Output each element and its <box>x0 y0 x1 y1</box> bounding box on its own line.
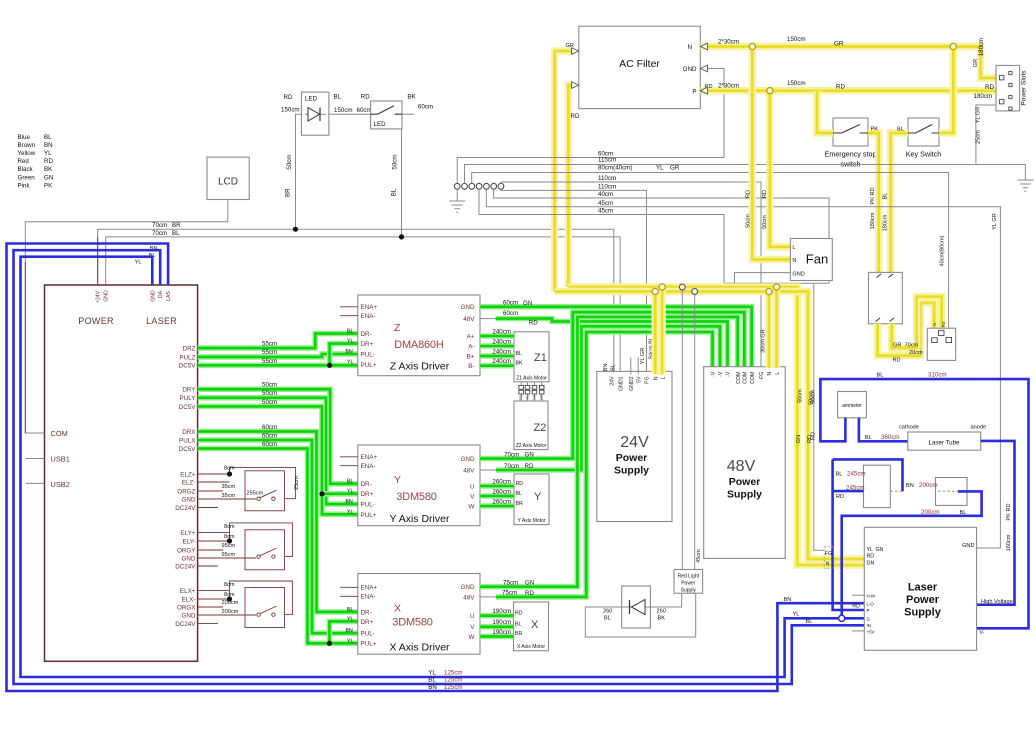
svg-text:BN: BN <box>346 628 353 634</box>
svg-text:L: L <box>775 372 781 375</box>
red light power supply taps on yellow bus <box>681 287 683 570</box>
svg-text:125cm: 125cm <box>444 670 463 677</box>
svg-text:RD: RD <box>529 320 538 327</box>
svg-text:GN: GN <box>525 580 534 587</box>
svg-text:48V: 48V <box>463 316 475 323</box>
svg-text:FG: FG <box>941 322 946 328</box>
svg-text:50cm: 50cm <box>262 382 277 389</box>
svg-text:X Axis Motor: X Axis Motor <box>517 644 545 650</box>
dashed link B1-B2 <box>890 490 902 492</box>
wire blue BL 360cm ammeter to laser tube cathode <box>859 418 908 442</box>
wire relay out B 20cm RD to plug <box>892 297 942 348</box>
svg-text:245cm: 245cm <box>847 471 866 478</box>
LED D1 indicator <box>301 92 329 135</box>
svg-text:BR: BR <box>285 188 292 197</box>
svg-text:GN: GN <box>867 561 875 567</box>
svg-text:YL GR: YL GR <box>992 213 998 230</box>
svg-text:RD: RD <box>836 84 845 91</box>
svg-text:ENA-: ENA- <box>361 594 376 601</box>
svg-text:GN: GN <box>876 547 884 553</box>
svg-text:Supply: Supply <box>727 489 762 501</box>
svg-text:ENA-: ENA- <box>361 313 376 320</box>
svg-text:ORGY: ORGY <box>177 547 196 554</box>
wire 40cm line 6 <box>494 189 829 283</box>
svg-text:X Axis Driver: X Axis Driver <box>389 641 450 653</box>
svg-text:RD: RD <box>571 113 580 120</box>
wire 24V PSU N yellow <box>652 292 659 375</box>
svg-text:180cm: 180cm <box>974 93 993 100</box>
svg-text:Brown: Brown <box>18 142 36 149</box>
Laser Power Supply PS3 <box>864 527 976 650</box>
svg-text:ENA+: ENA+ <box>361 585 378 592</box>
svg-text:GND: GND <box>182 496 196 503</box>
svg-text:GND: GND <box>461 304 475 311</box>
Fan <box>790 239 832 281</box>
svg-text:RD: RD <box>762 190 768 198</box>
svg-text:RD: RD <box>44 158 53 165</box>
svg-text:60cm: 60cm <box>262 424 277 431</box>
svg-text:BK: BK <box>44 166 53 173</box>
svg-text:95cm: 95cm <box>222 543 236 549</box>
wire LED S1 right lead <box>402 113 414 115</box>
svg-text:X: X <box>531 619 539 631</box>
svg-text:ORGZ: ORGZ <box>177 488 195 495</box>
svg-text:360cm: 360cm <box>881 434 900 441</box>
svg-text:50cm: 50cm <box>286 154 293 169</box>
svg-text:RD: RD <box>811 432 817 440</box>
svg-text:48V: 48V <box>463 467 475 474</box>
limit switch box <box>245 588 285 628</box>
wire 24V PSU L yellow <box>658 287 665 374</box>
svg-text:70cm: 70cm <box>504 451 519 458</box>
Z1-Z2 motor interconnect plugs <box>520 382 522 401</box>
svg-text:FG: FG <box>645 377 651 384</box>
svg-text:ORGX: ORGX <box>177 604 196 611</box>
LED S1 switch <box>371 101 402 129</box>
svg-text:BL: BL <box>347 329 353 335</box>
svg-text:DR+: DR+ <box>361 619 374 626</box>
svg-text:8cm: 8cm <box>224 524 235 530</box>
svg-text:cathode: cathode <box>899 425 919 431</box>
svg-text:260cm: 260cm <box>492 478 511 485</box>
wire PULY 50cm to Y driver PUL- <box>198 398 358 504</box>
wire yellow lower bus (N/GR) to laser PSU RD <box>555 292 865 560</box>
wire key switch to GR line <box>939 47 953 134</box>
svg-text:PUL-: PUL- <box>361 631 375 638</box>
ground symbol left terminal <box>456 189 458 201</box>
svg-text:55cm: 55cm <box>262 349 277 356</box>
svg-text:DR+: DR+ <box>361 341 374 348</box>
svg-text:240cm: 240cm <box>492 358 511 365</box>
svg-text:60cm: 60cm <box>503 310 518 317</box>
wire X 48V 75cm RD to 48V -V <box>480 596 496 598</box>
svg-text:DC24V: DC24V <box>175 621 196 628</box>
svg-text:L: L <box>792 245 795 251</box>
svg-text:N: N <box>767 371 773 375</box>
LCD module <box>207 157 249 199</box>
svg-text:BL: BL <box>516 351 522 357</box>
Y axis motor M3 <box>514 474 549 525</box>
svg-text:GND: GND <box>461 584 475 591</box>
svg-text:BL: BL <box>347 479 353 485</box>
svg-text:Red: Red <box>18 158 30 165</box>
laser tube <box>908 432 981 450</box>
svg-text:N: N <box>932 323 937 326</box>
svg-text:BL: BL <box>806 619 813 625</box>
junction dot limit <box>227 538 232 543</box>
svg-text:Black: Black <box>18 166 34 173</box>
wire blue 310cm BL loop: ammeter to V- pin <box>820 379 1028 628</box>
svg-text:150cm: 150cm <box>787 36 806 43</box>
svg-text:180cm: 180cm <box>870 212 876 229</box>
svg-text:PUL+: PUL+ <box>361 641 377 648</box>
svg-text:G: G <box>867 617 871 622</box>
wire EL- row <box>198 540 230 542</box>
svg-text:YL: YL <box>44 150 52 157</box>
svg-text:BN: BN <box>906 483 914 489</box>
svg-text:2*30cm: 2*30cm <box>718 39 739 46</box>
limit switch contacts <box>257 613 260 616</box>
wire red light loop right 260 BK <box>650 593 681 607</box>
svg-text:N: N <box>653 376 659 380</box>
svg-text:RD: RD <box>746 190 752 198</box>
svg-text:YL: YL <box>347 509 353 515</box>
wires X driver to X motor 190cm <box>480 613 514 619</box>
svg-text:GR: GR <box>834 41 844 48</box>
svg-text:190cm: 190cm <box>492 619 511 626</box>
svg-text:310cm: 310cm <box>928 372 947 379</box>
svg-text:DR-: DR- <box>361 331 372 338</box>
svg-text:Y: Y <box>534 491 542 503</box>
svg-text:LED: LED <box>374 121 387 128</box>
svg-text:Z2 Axis Motor: Z2 Axis Motor <box>516 443 547 449</box>
svg-text:Power Slots: Power Slots <box>1021 70 1028 106</box>
svg-text:BK: BK <box>516 361 523 367</box>
svg-text:Fan: Fan <box>806 252 828 267</box>
svg-text:50cm: 50cm <box>811 390 817 404</box>
svg-text:24V: 24V <box>620 434 649 451</box>
svg-text:Red Light: Red Light <box>678 574 700 580</box>
svg-text:PK: PK <box>44 182 53 189</box>
svg-text:Yellow: Yellow <box>18 150 36 157</box>
junction dot Z DC5V <box>327 363 332 368</box>
svg-text:BR: BR <box>516 501 523 507</box>
svg-text:USB2: USB2 <box>51 480 70 489</box>
svg-text:BL: BL <box>883 193 889 200</box>
svg-text:RD: RD <box>893 358 901 364</box>
24V power supply PS1 <box>597 371 672 521</box>
svg-text:GR: GR <box>670 164 680 171</box>
svg-text:IN: IN <box>867 623 871 628</box>
svg-text:LAS: LAS <box>166 291 172 301</box>
svg-text:W: W <box>469 634 475 641</box>
svg-text:YL: YL <box>347 489 353 495</box>
wire fan L tap <box>770 91 791 247</box>
svg-text:260: 260 <box>657 609 666 615</box>
svg-text:Z: Z <box>394 322 401 334</box>
wire key switch to relay BL 180cm <box>891 133 908 272</box>
svg-text:BN: BN <box>603 364 609 372</box>
wire LED S1 bottom lead BL 50cm <box>401 129 403 237</box>
wire LCD to COM <box>25 200 228 434</box>
svg-text:45cm: 45cm <box>598 207 613 214</box>
wire limit loop via top <box>230 523 293 557</box>
svg-text:40cm(80cm): 40cm(80cm) <box>940 235 946 266</box>
svg-text:BK: BK <box>407 94 416 101</box>
svg-text:L: L <box>660 376 666 379</box>
junction dot limit <box>227 471 232 476</box>
wire blue BN: LAS pin loop to laser PSU L-O <box>7 244 865 692</box>
wire EL- row <box>198 481 230 483</box>
svg-text:50cm: 50cm <box>262 399 277 406</box>
svg-text:ELZ+: ELZ+ <box>180 471 196 478</box>
wire AC filter P-left down to upper yellow bus <box>568 85 571 287</box>
svg-text:GND: GND <box>150 290 156 302</box>
svg-text:YL: YL <box>793 612 800 618</box>
svg-text:BL: BL <box>44 134 52 141</box>
svg-text:BL: BL <box>428 677 436 684</box>
svg-text:Power: Power <box>681 581 696 587</box>
svg-text:95cm: 95cm <box>222 552 236 558</box>
wire EL- row <box>198 598 230 600</box>
svg-text:BK: BK <box>540 394 544 399</box>
svg-text:20cm: 20cm <box>909 350 923 356</box>
svg-text:RD: RD <box>852 604 860 610</box>
svg-text:Z1 Axis Motor: Z1 Axis Motor <box>516 376 547 382</box>
limit switch contacts <box>257 497 260 500</box>
wire DRZ 55cm to Z driver DR- <box>198 334 358 349</box>
Emergency stop switch <box>833 118 868 146</box>
svg-text:GND: GND <box>792 272 804 278</box>
svg-text:GN: GN <box>533 394 537 400</box>
svg-text:Y Axis Driver: Y Axis Driver <box>390 513 450 525</box>
wire 70cm BL net: GND pin to 24V PSU BL <box>106 237 621 375</box>
mains plug connector J1 <box>927 328 955 360</box>
svg-text:70cm: 70cm <box>504 463 519 470</box>
svg-text:24V: 24V <box>610 376 616 386</box>
svg-text:5V: 5V <box>636 376 642 383</box>
svg-text:PK: PK <box>871 127 879 133</box>
svg-text:YL: YL <box>347 638 353 644</box>
svg-text:FG: FG <box>759 372 765 379</box>
wire 70cm BR net: +24V pin to 24V PSU BN <box>98 229 614 374</box>
relay / contactor K1 <box>869 272 903 323</box>
wire DC24V stub <box>198 623 218 625</box>
svg-text:GND: GND <box>962 543 974 549</box>
wire GND to switch <box>198 614 257 616</box>
svg-text:150cm: 150cm <box>787 80 806 87</box>
svg-text:U: U <box>470 613 475 620</box>
svg-text:48V: 48V <box>727 458 756 475</box>
svg-text:8cm: 8cm <box>224 534 235 540</box>
svg-text:Pink: Pink <box>18 182 31 189</box>
svg-text:70cm: 70cm <box>152 230 167 237</box>
wire 110cm line 5 to 24V PSU FG <box>501 189 647 374</box>
svg-text:BL: BL <box>391 188 398 196</box>
svg-text:BR: BR <box>515 631 522 637</box>
wire 110cm line 4 to 48V PSU FG <box>501 182 761 367</box>
svg-text:COM: COM <box>51 429 68 438</box>
svg-text:V-: V- <box>980 630 985 636</box>
svg-text:YL GR: YL GR <box>976 107 982 124</box>
wire DC24V stub <box>198 565 218 567</box>
svg-text:RD: RD <box>525 590 534 597</box>
svg-text:Key Switch: Key Switch <box>906 150 942 159</box>
svg-text:ELY-: ELY- <box>183 538 196 545</box>
svg-text:PUL+: PUL+ <box>361 362 377 369</box>
Red Light Power Supply PS4 <box>674 570 703 594</box>
svg-text:PUL-: PUL- <box>361 501 375 508</box>
junction dot BR net <box>293 227 298 232</box>
svg-text:BL: BL <box>516 491 522 497</box>
svg-text:DMA860H: DMA860H <box>394 339 444 351</box>
svg-text:8cm: 8cm <box>224 466 235 472</box>
svg-text:RD: RD <box>836 494 844 500</box>
svg-text:GND: GND <box>461 456 475 463</box>
svg-text:60cm: 60cm <box>262 441 277 448</box>
svg-text:70cm: 70cm <box>905 343 919 349</box>
hour meter / control box B1 <box>864 465 891 507</box>
svg-text:LED: LED <box>305 96 318 103</box>
wires Z driver to Z1 motor 240cm <box>480 333 514 339</box>
wire Z GND 60cm GN to 48V COM <box>480 307 752 368</box>
svg-text:Supply: Supply <box>904 607 942 619</box>
wire limit loop via top <box>230 467 296 498</box>
svg-text:60cm: 60cm <box>262 432 277 439</box>
svg-text:PULX: PULX <box>179 437 196 444</box>
junction dot Y DC5V <box>319 491 324 496</box>
svg-text:USB1: USB1 <box>51 455 70 464</box>
limit switch box <box>245 530 285 570</box>
svg-text:GN: GN <box>525 452 534 459</box>
svg-text:180cm: 180cm <box>978 38 985 57</box>
svg-text:Z2: Z2 <box>534 422 547 434</box>
svg-text:GND2: GND2 <box>629 376 635 391</box>
Z1 axis motor M1 <box>514 332 549 382</box>
svg-text:DR-: DR- <box>361 609 372 616</box>
svg-text:GND: GND <box>182 555 196 562</box>
svg-text:25cm: 25cm <box>976 130 982 144</box>
wire DC5V 50cm to Y driver PUL+ and DR+ <box>198 406 358 514</box>
svg-text:DC24V: DC24V <box>175 563 196 570</box>
svg-text:H-M: H-M <box>867 594 876 599</box>
svg-text:FG: FG <box>825 551 832 557</box>
svg-text:BL: BL <box>515 622 521 628</box>
X axis motor M4 <box>514 602 549 651</box>
svg-text:DRZ: DRZ <box>183 346 196 353</box>
svg-text:BN: BN <box>346 349 353 355</box>
wire 45cm line 8 <box>479 189 724 283</box>
svg-text:110cm: 110cm <box>598 183 616 190</box>
wire AC filter N 150cm GR line <box>700 47 996 79</box>
svg-text:YL GR: YL GR <box>640 348 646 365</box>
svg-text:Power: Power <box>616 452 648 464</box>
wire 48V PSU L yellow <box>773 287 780 368</box>
svg-text:Green: Green <box>18 174 36 181</box>
svg-text:55cm: 55cm <box>262 358 277 365</box>
terminal strip circles <box>455 183 459 190</box>
svg-text:190cm: 190cm <box>492 629 511 636</box>
svg-text:BL: BL <box>604 616 611 622</box>
svg-text:BL: BL <box>334 94 342 101</box>
svg-text:180cm: 180cm <box>883 214 889 231</box>
wire Y GND 70cm GN to 48V COM <box>480 312 744 458</box>
svg-text:A-: A- <box>468 343 474 350</box>
svg-text:B+: B+ <box>467 353 475 360</box>
svg-text:BL: BL <box>960 510 967 516</box>
svg-text:3DM580: 3DM580 <box>396 491 436 503</box>
wire blue BL: DA pin loop to laser PSU IN <box>14 250 865 684</box>
svg-text:YL: YL <box>347 339 353 345</box>
wire EL+ row <box>198 590 230 592</box>
svg-text:DR-: DR- <box>361 481 372 488</box>
svg-text:B-: B- <box>468 363 474 370</box>
wire AC filter P 150cm RD line to power slots <box>700 87 996 94</box>
svg-text:50cm: 50cm <box>762 215 768 229</box>
wire DRY 50cm to Y driver DR- <box>198 389 358 484</box>
wire 115cm line 2 to right ground <box>465 165 1026 184</box>
wire GND to switch <box>198 557 257 559</box>
Y axis driver U2 3DM580 <box>358 445 480 526</box>
wire ORG stub <box>198 606 223 608</box>
svg-text:125cm: 125cm <box>444 677 463 684</box>
svg-text:U: U <box>470 483 475 490</box>
svg-text:-V: -V <box>718 371 724 377</box>
junction dot X DC5V <box>327 641 332 646</box>
svg-text:2*30cm: 2*30cm <box>718 83 739 90</box>
wire between LED D1 and LED S1 <box>329 113 371 115</box>
svg-text:YL: YL <box>428 670 436 677</box>
svg-text:+5V: +5V <box>867 630 875 635</box>
junction dot limit <box>227 596 232 601</box>
svg-text:DC5V: DC5V <box>179 446 197 453</box>
svg-text:BL: BL <box>347 607 353 613</box>
wire Z 48V 60cm RD to 48V -V <box>480 318 496 320</box>
FG terminal dashed <box>824 547 834 569</box>
svg-text:200cm: 200cm <box>222 600 239 606</box>
wire yellow upper bus (P/RD) to laser PSU GN <box>568 287 864 565</box>
svg-text:190cm: 190cm <box>492 608 511 615</box>
svg-text:L-O: L-O <box>867 602 875 607</box>
svg-text:BL: BL <box>836 472 843 478</box>
svg-text:3DM580: 3DM580 <box>392 617 432 629</box>
svg-text:255cm: 255cm <box>247 491 264 497</box>
svg-text:ELY+: ELY+ <box>180 530 195 537</box>
svg-text:RD: RD <box>515 611 523 617</box>
svg-text:YL: YL <box>867 547 873 553</box>
wire PULZ 55cm to Z driver PUL- <box>198 354 358 357</box>
svg-text:ELX+: ELX+ <box>180 588 196 595</box>
svg-text:50cm: 50cm <box>392 154 399 169</box>
limit switch contacts <box>257 555 260 558</box>
svg-text:Supply: Supply <box>614 465 649 477</box>
Z2 axis motor M2 <box>514 401 548 450</box>
svg-text:240cm: 240cm <box>492 338 511 345</box>
wire red light loop left 260 BL <box>585 593 695 637</box>
svg-text:ENA-: ENA- <box>361 463 376 470</box>
svg-text:70cm: 70cm <box>152 222 167 229</box>
wire 80cm(40cm) line 3 to plug FG <box>472 173 949 329</box>
svg-text:RD: RD <box>525 463 534 470</box>
svg-text:115cm: 115cm <box>598 156 616 163</box>
wire blue 245cm loop to P pin <box>833 491 865 610</box>
svg-text:50cm: 50cm <box>798 389 804 403</box>
svg-text:260cm: 260cm <box>492 498 511 505</box>
48V power supply PS2 <box>704 367 786 559</box>
svg-text:COM: COM <box>743 372 749 384</box>
AC Filter <box>579 26 701 108</box>
svg-text:260: 260 <box>603 609 612 615</box>
